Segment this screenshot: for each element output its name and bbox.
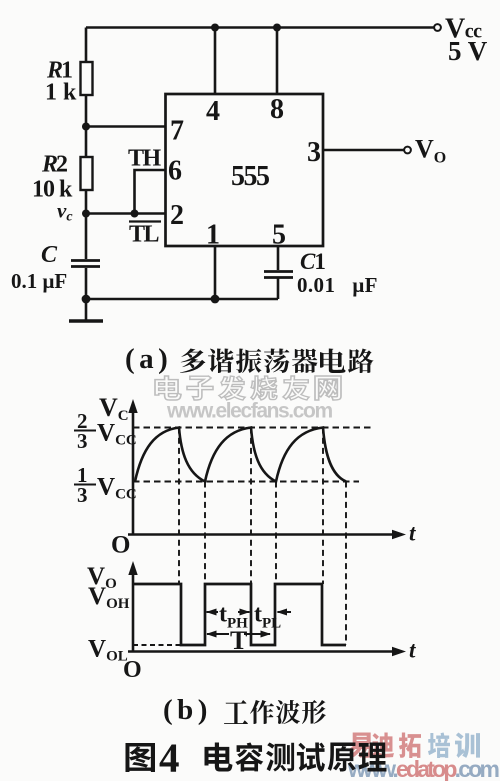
svg-text:4: 4 [159,735,180,781]
wire pin 6 L-shape [135,170,167,214]
wire left branch vertical [85,28,88,300]
resistor R2 [81,157,93,190]
node bottom-left junction [82,295,91,304]
dashed vertical t5 [322,428,324,585]
svg-text:0.01 μF: 0.01 μF [297,273,378,297]
T right arrow [244,633,270,635]
wire pin 3 output [323,149,404,152]
dashed vertical t2 [204,482,206,585]
svg-text:0.1 μF: 0.1 μF [11,269,67,293]
axis Vo vertical with arrow [132,571,135,652]
square wave Vo [133,584,346,645]
wire top Vcc rail [86,26,434,29]
capacitor C1 plates [264,270,293,273]
dashed vertical t3 [250,428,252,585]
node pin7 junction [82,123,90,131]
svg-text:T: T [230,626,247,655]
svg-text:3: 3 [307,137,321,168]
svg-text:555: 555 [231,161,269,192]
svg-text:3: 3 [77,483,88,507]
wire pin 5 [277,246,280,270]
wire pin 4 [214,28,217,95]
wire C1 to bottom rail [277,278,280,300]
wire pin 8 [276,28,279,95]
svg-text:t: t [409,521,416,546]
svg-text:1 k: 1 k [45,80,77,106]
terminal Vo open circle [404,147,411,154]
node pin4 top junction [211,24,219,32]
svg-text:5: 5 [272,220,286,251]
capacitor C plates [71,259,100,262]
svg-text:5 V: 5 V [448,36,488,66]
T left arrow [207,633,229,635]
terminal Vcc open circle [434,24,441,31]
caption (b) text gong zuo bo xing [224,700,326,724]
wire pin 1 [214,246,217,299]
node vc junction [82,210,90,218]
svg-text:C: C [41,242,58,268]
watermark elecfans cn text [155,376,341,400]
svg-text:3: 3 [77,429,88,453]
svg-text:O: O [111,532,130,559]
dashed VOL lead-in [133,644,181,646]
dashed vertical t1 [178,428,180,585]
tPL right arrow [278,611,292,613]
dashed vertical t6 [345,482,347,646]
resistor R1 [81,62,93,95]
svg-text:C1: C1 [300,249,325,274]
axis t upper horizontal with arrow [128,533,396,536]
svg-text:TH: TH [128,146,162,172]
dashed level 1/3 Vcc [133,481,359,483]
bottom caption text dian rong ce shi yuan li [205,742,387,771]
svg-text:www.elecfans.com: www.elecfans.com [166,400,332,423]
svg-text:2: 2 [170,200,184,231]
caption (a) text duo xie zhen dang qi dian lu [180,348,373,373]
curve Vc charge discharge [135,428,346,482]
svg-text:TL: TL [129,222,159,248]
axis t lower horizontal with arrow [128,650,394,653]
watermark edatop cn text [348,732,479,758]
svg-text:6: 6 [168,156,182,187]
svg-text:10 k: 10 k [32,177,73,203]
IC 555 body [166,94,324,246]
svg-text:O: O [123,657,142,683]
dashed level 2/3 Vcc [133,427,371,429]
svg-text:R2: R2 [41,152,67,178]
label TL with overline [129,220,161,222]
node pin1 bottom junction [211,295,220,304]
tPH right arrow [238,611,250,613]
bottom caption figure number tu 4 [125,743,154,772]
svg-text:7: 7 [170,116,184,147]
svg-text:1: 1 [206,220,220,251]
svg-text:(a): (a) [125,343,172,375]
axis Vc vertical with arrow [132,409,135,535]
tPH left arrow [207,611,219,613]
node pin2 TL junction [131,210,139,218]
wire bottom rail [86,298,278,301]
wire pin 7 [86,125,166,128]
svg-text:t: t [409,638,416,663]
dashed vertical t4 [275,482,277,585]
svg-text:4: 4 [206,96,220,127]
ground [85,299,88,320]
svg-text:(b): (b) [163,694,212,726]
node pin8 top junction [273,24,281,32]
wire pin 2 [86,212,166,215]
svg-text:8: 8 [270,94,284,125]
